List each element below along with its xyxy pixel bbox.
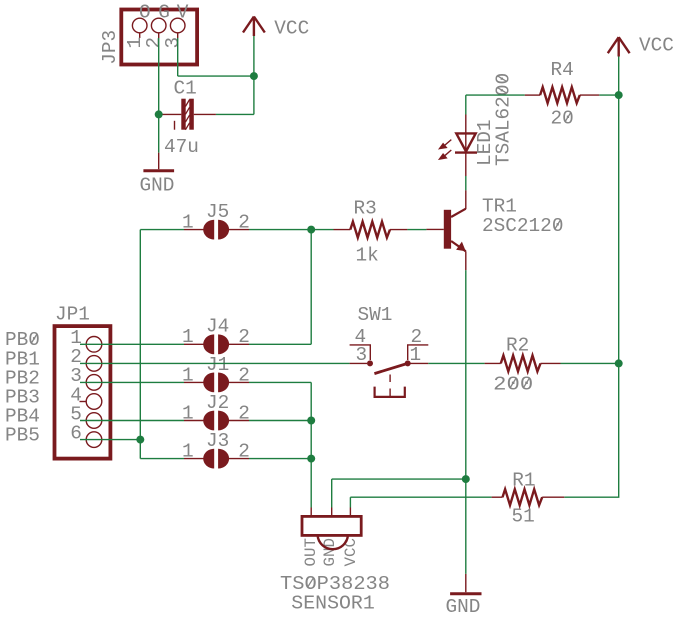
J2 pin1 lead (184, 420, 204, 422)
wire PB5 pin6 to left rail (80, 439, 140, 441)
wire R4 left to LED column (466, 94, 525, 96)
J5 pin1 lead (184, 229, 204, 231)
svg-text:47u: 47u (164, 136, 199, 158)
jumper J4 pads (203, 334, 229, 354)
SW1 lever (374, 363, 409, 374)
J1 pin2 lead (228, 381, 249, 383)
wire left rail to J5 (140, 229, 184, 231)
wire J3 pin2 right (249, 458, 311, 460)
wire pin3 right to VCC node (178, 75, 254, 77)
svg-text:J5: J5 (206, 201, 229, 223)
J4 pin2 lead (228, 343, 249, 345)
SW1 actuator bracket (375, 387, 405, 397)
resistor R2 (501, 355, 541, 371)
R2 right lead (541, 362, 561, 364)
ground GND (bottom) pin (465, 574, 467, 592)
R4 right lead (580, 94, 600, 96)
JP3 pin 2 stub (158, 33, 160, 38)
svg-text:200: 200 (493, 373, 533, 395)
svg-text:J3: J3 (206, 430, 229, 452)
svg-text:51: 51 (512, 505, 535, 527)
node D: J5/R3 junction dot (307, 226, 315, 234)
R4 left lead (525, 94, 540, 96)
R3 right lead (390, 229, 407, 231)
wire left rail vertical (139, 230, 141, 459)
JP1 pin 5 circle (86, 413, 102, 429)
ground GND (bottom) bar (450, 592, 481, 595)
LED1 cathode lead (465, 153, 467, 176)
svg-text:JP1: JP1 (55, 303, 90, 325)
svg-text:O: O (139, 2, 151, 24)
J3 pin1 lead (184, 458, 204, 460)
resistor R4 (540, 87, 580, 103)
wire left rail to J3 pin1 (140, 458, 184, 460)
wire JP3 pin3 down (177, 38, 179, 76)
wire LED column down (465, 95, 467, 114)
wire LED to collector (465, 176, 467, 190)
svg-text:SENSOR1: SENSOR1 (291, 593, 375, 615)
wire down to sensor pin3 (349, 497, 351, 507)
SW1 actuator dashed link (389, 375, 391, 398)
LED1 value TSAL6200 (rotated) (493, 73, 515, 166)
svg-text:VCC: VCC (639, 35, 674, 57)
wire VCC rail down to R2 (618, 95, 620, 363)
supply VCC arrow (right) (608, 37, 630, 56)
sensor dome (318, 535, 348, 549)
wire rail down to R1 (564, 363, 618, 497)
wire VCC node down (253, 76, 255, 114)
wire junction to R3 (311, 229, 333, 231)
C1 polarity mark (174, 121, 176, 130)
svg-text:VCC: VCC (274, 17, 309, 39)
wire R4 right to rail (599, 94, 618, 96)
JP1 pin 3 circle (86, 375, 102, 391)
svg-text:1k: 1k (356, 244, 379, 266)
LED1 anode lead (465, 115, 467, 153)
svg-text:J1: J1 (206, 354, 229, 376)
wire JP3 pin2 down to C1 junction (158, 38, 160, 114)
node E: PB5 junction dot (136, 436, 144, 444)
svg-text:JP3: JP3 (99, 30, 121, 65)
node B: C1/GND junction dot (155, 110, 163, 118)
diode LED1 (455, 133, 477, 152)
SW1 pin 3 lead (350, 362, 367, 364)
wire R3 to base (407, 229, 426, 231)
wire junction down to GND (158, 114, 160, 152)
wire PB0 pin1 to J4 (80, 343, 184, 345)
SW1 pin 2 lead (408, 345, 429, 360)
JP3 pin 3 circle (170, 18, 185, 33)
JP3 pin 3 stub (177, 33, 179, 38)
R2 left lead (485, 362, 501, 364)
node G: J3 junction dot (307, 455, 315, 463)
wire junction down to J4 row (310, 230, 312, 345)
R1 right lead (542, 496, 564, 498)
resistor R1 (503, 489, 543, 505)
ground GND (top left) pin (158, 153, 160, 170)
wire R1 row left (350, 496, 491, 498)
J4 pin1 lead (184, 343, 204, 345)
svg-text:C1: C1 (174, 78, 197, 100)
svg-text:V: V (177, 2, 189, 24)
J3 pin2 lead (228, 458, 249, 460)
svg-text:J4: J4 (206, 316, 229, 338)
jumper J2 pads (203, 411, 229, 431)
JP1 pin 2 circle (86, 356, 102, 372)
SW1 pin 4 lead (350, 345, 371, 360)
wire J1 pin2 right (249, 381, 311, 383)
slashed zero marks (31, 112, 571, 587)
wire emitter down to GND (465, 270, 467, 574)
jumper J1 pads (203, 373, 229, 393)
jumper J5 pads (203, 220, 229, 240)
J5 pin2 lead (228, 229, 249, 231)
node I: emitter/sensor-gnd junction dot (462, 475, 470, 483)
wire down to sensor pin2 (331, 479, 333, 507)
SENSOR1 pin2 GND lead (331, 508, 333, 517)
wire J4 pin2 right (249, 343, 311, 345)
svg-text:R2: R2 (506, 334, 529, 356)
SW1 left contact dot (367, 360, 373, 366)
svg-text:GND: GND (321, 538, 339, 566)
TR1 collector pin (465, 190, 467, 209)
supply VCC arrow (left) (243, 17, 265, 37)
JP3 pin 1 stub (139, 33, 141, 38)
svg-text:2SC2120: 2SC2120 (482, 215, 563, 237)
svg-text:TSAL6200: TSAL6200 (493, 73, 515, 166)
C1 right lead (194, 113, 216, 115)
svg-text:GND: GND (446, 596, 481, 617)
svg-text:SW1: SW1 (358, 304, 393, 326)
capacitor C1 left plate (181, 99, 185, 130)
node H: R2/rail junction dot (615, 359, 623, 367)
svg-text:OUT: OUT (302, 538, 320, 566)
svg-text:J2: J2 (206, 392, 229, 414)
JP1 pin 4 stub (80, 401, 87, 403)
svg-text:20: 20 (551, 108, 574, 130)
sensor SENSOR1 body (302, 516, 361, 535)
ground GND (top left) bar (143, 169, 174, 172)
JP1 pin 1 circle (86, 337, 102, 353)
wire VCC rail top (618, 57, 620, 96)
TR1 base pin (426, 228, 443, 230)
svg-text:PB5: PB5 (5, 425, 40, 447)
J1 pin1 lead (184, 381, 204, 383)
capacitor C1 right plate (189, 99, 194, 130)
wire sensor GND to emitter rail (332, 478, 466, 480)
wire SW1 to R2 (428, 362, 484, 364)
C1 gap hatch (185, 100, 189, 130)
R1 left lead (492, 496, 503, 498)
wire J5 pin2 to R3 junction (249, 229, 311, 231)
SW1 pin 1 lead (408, 362, 429, 364)
wire to C1 right plate (216, 113, 254, 115)
LED1 emission arrows (440, 140, 452, 159)
SENSOR1 pin3 VCC lead (349, 508, 351, 517)
jumper J3 pads (203, 449, 229, 469)
node F: J2 junction dot (307, 417, 315, 425)
SENSOR1 pin1 OUT lead (310, 508, 312, 517)
svg-text:3: 3 (162, 37, 184, 49)
svg-text:6: 6 (70, 422, 82, 444)
JP3 pin 1 circle (132, 18, 147, 33)
wire R2 to rail (561, 362, 619, 364)
svg-text:R4: R4 (551, 59, 574, 81)
wire PB4 pin5 to J2 (80, 420, 184, 422)
node A: VCC junction dot (250, 72, 258, 80)
SW1 right contact dot (405, 360, 411, 366)
JP3 pin 2 circle (151, 18, 166, 33)
connector JP3 body (121, 10, 197, 65)
TR1 emitter pin (465, 251, 467, 270)
R3 left lead (334, 229, 351, 231)
JP1 pin 4 circle (86, 394, 102, 410)
wire VCC node up (253, 36, 255, 76)
svg-text:R3: R3 (354, 198, 377, 220)
transistor TR1 (444, 209, 466, 252)
svg-text:GND: GND (140, 175, 175, 197)
wire J2 pin2 right (249, 420, 311, 422)
resistor R3 (350, 222, 390, 238)
C1 left lead (159, 113, 182, 115)
JP1 pin 6 circle (86, 432, 102, 448)
node C: R4/VCC rail junction dot (615, 91, 623, 99)
connector JP1 body (55, 326, 111, 459)
wire J-chain vertical down to sensor (310, 382, 312, 507)
wire PB2 pin3 to J1 (80, 381, 184, 383)
svg-text:G: G (158, 2, 170, 24)
wire PB1 pin2 to SW1 (80, 362, 350, 364)
J2 pin2 lead (228, 420, 249, 422)
